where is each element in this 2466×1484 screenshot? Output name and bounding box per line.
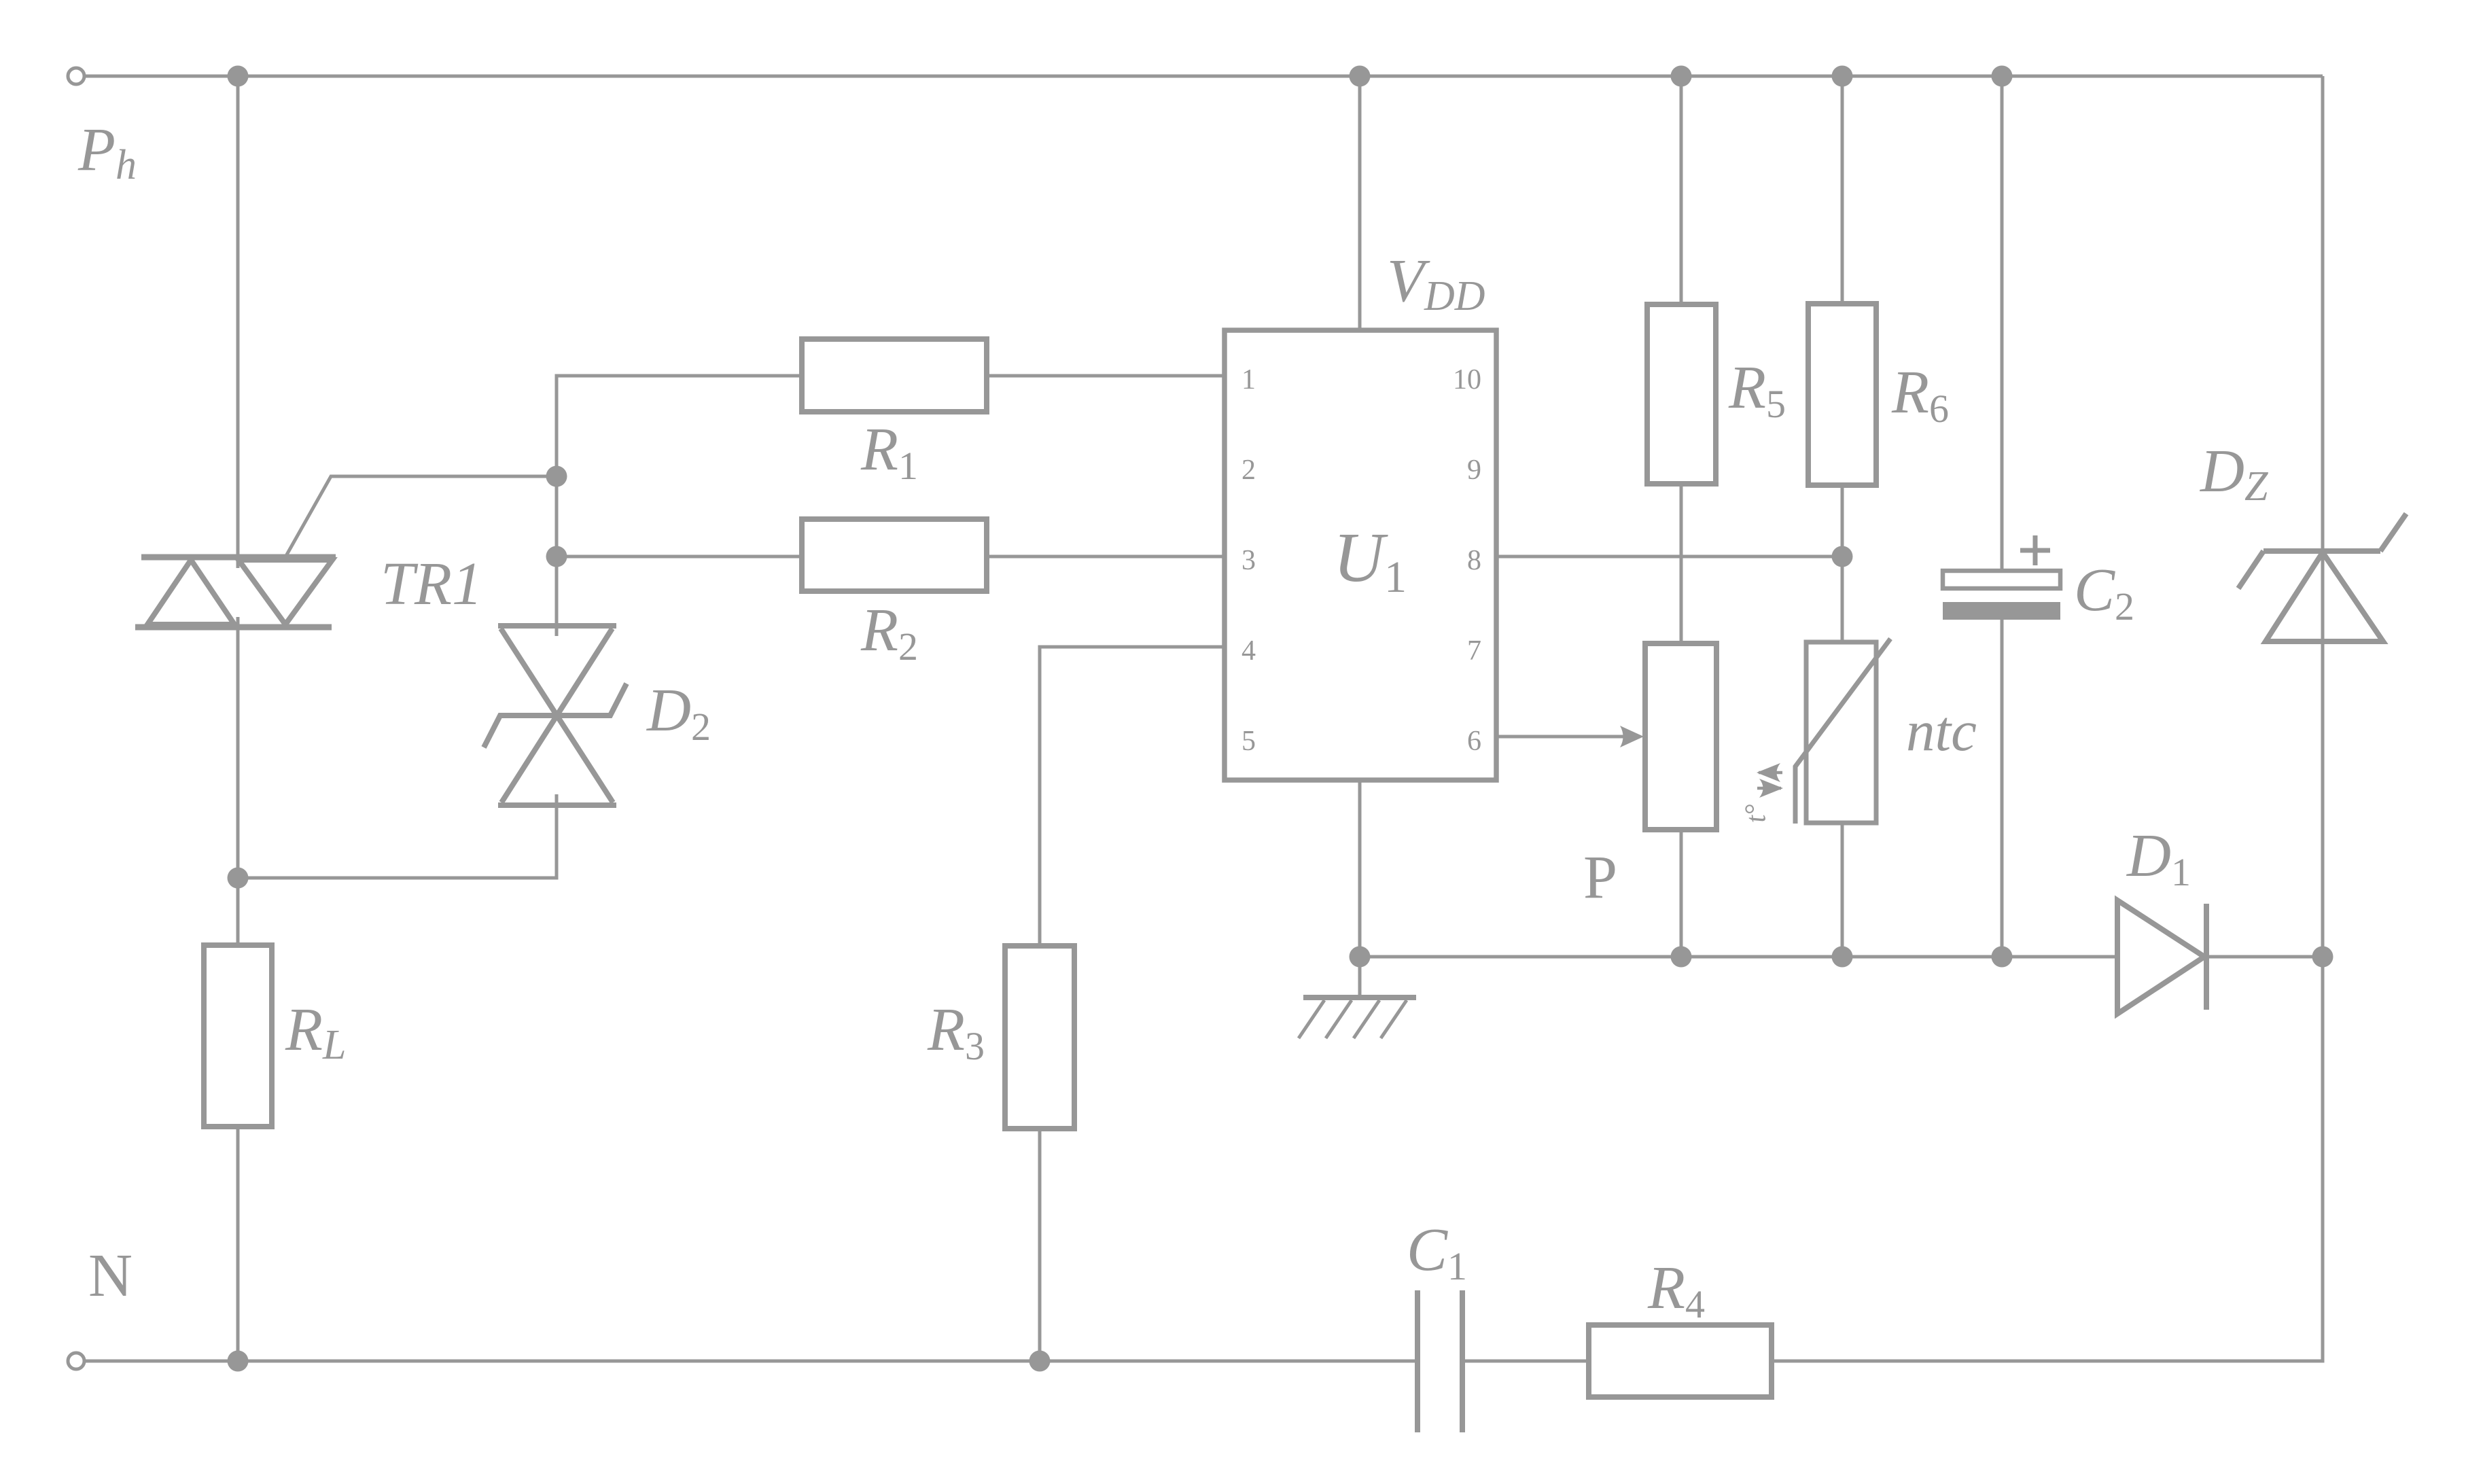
node ground rail / Dz D1 — [2312, 947, 2333, 968]
wire RL to bottom rail — [236, 1127, 240, 1361]
wire bottom rail R4 to right edge and up to D1 node — [1772, 960, 2323, 1361]
svg-text:10: 10 — [1453, 364, 1481, 395]
diode D1 — [2117, 900, 2206, 1014]
wire top rail Ph — [84, 75, 2323, 78]
wire U1 pin 4 to R3 — [1040, 647, 1225, 946]
svg-text:1: 1 — [1241, 364, 1256, 395]
node ground / U1 — [1350, 947, 1371, 968]
resistor R1 — [802, 339, 987, 412]
ground symbol — [1299, 957, 1416, 1038]
wire triac gate — [286, 476, 557, 556]
svg-text:TR1: TR1 — [381, 550, 482, 618]
svg-text:D2: D2 — [646, 677, 711, 749]
svg-text:7: 7 — [1467, 635, 1481, 667]
potentiometer P — [1645, 643, 1716, 830]
zener diode Dz — [2238, 514, 2406, 641]
IC U1 — [1225, 330, 1496, 780]
wire R5 to potentiometer P — [1680, 484, 1683, 643]
terminal Ph (open circle) — [68, 68, 84, 84]
wire P to ground rail — [1680, 830, 1683, 957]
wire left vertical from top rail to triac — [236, 76, 240, 568]
wire R1 to U1 pin 1 — [987, 374, 1225, 378]
wire U1 pin 8 to R6 branch — [1496, 555, 1842, 559]
node bottom rail / RL — [228, 1351, 249, 1372]
wire D1 cathode to right edge node — [2206, 955, 2323, 959]
svg-text:N: N — [88, 1242, 133, 1309]
svg-text:R6: R6 — [1891, 359, 1949, 431]
node top rail / R5 — [1671, 66, 1692, 87]
wire R6 branch top — [1841, 76, 1844, 304]
wire C2 to ground rail — [2001, 620, 2004, 957]
diac D2 — [484, 626, 627, 805]
svg-text:ntc: ntc — [1906, 699, 1977, 763]
node pin8 / R6 junction — [1832, 546, 1853, 567]
svg-text:4: 4 — [1241, 635, 1256, 667]
svg-text:VDD: VDD — [1387, 247, 1485, 319]
svg-text:RL: RL — [285, 996, 346, 1068]
wire VDD supply — [1358, 76, 1362, 330]
resistor R6 — [1808, 304, 1876, 485]
resistor R3 — [1005, 946, 1074, 1129]
capacitor C2 (polarized) — [1943, 535, 2060, 620]
node diac return on left branch — [228, 868, 249, 889]
svg-text:2: 2 — [1241, 455, 1256, 486]
terminal N (open circle) — [68, 1353, 84, 1369]
svg-text:8: 8 — [1467, 545, 1481, 576]
svg-text:R5: R5 — [1728, 354, 1786, 426]
wire diac D2 bottom connector — [238, 794, 557, 878]
wire bottom rail C1 to R4 — [1462, 1360, 1589, 1363]
wire Dz branch from top rail corner — [2321, 76, 2325, 641]
svg-text:U1: U1 — [1333, 518, 1407, 602]
node R2 / diac junction — [546, 546, 567, 567]
svg-text:R3: R3 — [927, 996, 985, 1068]
node ground rail / C2 — [1992, 947, 2013, 968]
node top rail / left branch — [228, 66, 249, 87]
resistor R2 — [802, 519, 987, 591]
svg-text:t°: t° — [1740, 802, 1772, 825]
node ground rail / ntc — [1832, 947, 1853, 968]
svg-text:6: 6 — [1467, 726, 1481, 757]
svg-text:9: 9 — [1467, 455, 1481, 486]
node gate junction — [546, 466, 567, 487]
wire bottom rail N — [84, 1360, 1417, 1363]
svg-text:C1: C1 — [1407, 1216, 1467, 1288]
svg-text:3: 3 — [1241, 545, 1256, 576]
potentiometer P wiper arrowhead — [1620, 726, 1644, 747]
wire R2 to U1 pin 3 — [987, 555, 1225, 559]
wire triac to RL junction — [236, 617, 240, 945]
thermistor ntc — [1795, 639, 1890, 824]
wire R3 to bottom rail — [1038, 1129, 1042, 1361]
wire R1 left with corner down to gate node — [557, 376, 802, 636]
wire C2 branch top — [2001, 76, 2004, 571]
svg-text:C2: C2 — [2074, 556, 2134, 629]
triac TR1 — [135, 557, 336, 627]
node ground rail / P — [1671, 947, 1692, 968]
node top rail / VDD — [1350, 66, 1371, 87]
thermistor ntc temperature arrows — [1757, 763, 1783, 798]
node top rail / R6 — [1832, 66, 1853, 87]
node bottom rail / R3 — [1029, 1351, 1051, 1372]
svg-text:P: P — [1583, 844, 1617, 911]
wire ntc to ground rail — [1841, 823, 1844, 957]
wire U1 pin 6 wiper — [1496, 735, 1631, 739]
wire R2 left to diac branch — [557, 555, 802, 559]
svg-text:Ph: Ph — [77, 116, 137, 188]
resistor R4 — [1589, 1325, 1772, 1397]
svg-text:D1: D1 — [2126, 822, 2191, 894]
svg-text:5: 5 — [1241, 726, 1256, 757]
wire R5 branch top — [1680, 76, 1683, 304]
resistor R5 — [1647, 304, 1716, 484]
wire ground rail to D1 — [1360, 955, 2117, 959]
svg-text:R2: R2 — [860, 597, 918, 669]
svg-text:DZ: DZ — [2199, 438, 2268, 510]
wire R6 to ntc — [1841, 485, 1844, 642]
wire Dz to D1 node — [2321, 641, 2325, 957]
wire U1 bottom to ground node — [1358, 780, 1362, 957]
resistor RL — [204, 945, 272, 1127]
node top rail / C2 — [1992, 66, 2013, 87]
capacitor C1 — [1417, 1290, 1462, 1432]
svg-text:R1: R1 — [860, 416, 918, 488]
svg-text:R4: R4 — [1647, 1254, 1705, 1326]
